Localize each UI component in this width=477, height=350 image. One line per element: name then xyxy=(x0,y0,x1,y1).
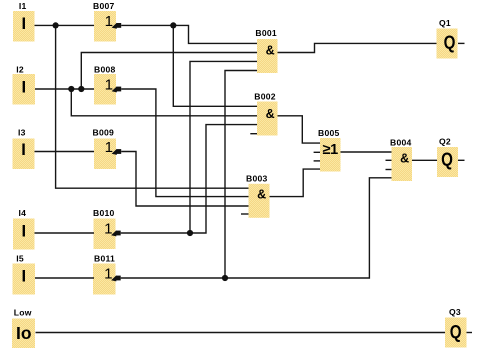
svg-text:&: & xyxy=(266,107,275,121)
wire Q3 output stub xyxy=(467,332,473,334)
svg-text:&: & xyxy=(257,188,266,202)
svg-text:I5: I5 xyxy=(16,253,24,263)
svg-text:B001: B001 xyxy=(255,28,277,38)
svg-text:Q3: Q3 xyxy=(449,307,461,317)
wire I4 to B010 input xyxy=(35,232,95,234)
svg-text:B007: B007 xyxy=(93,1,115,11)
svg-text:Io: Io xyxy=(16,323,32,343)
svg-text:1: 1 xyxy=(105,13,113,30)
input I1 xyxy=(13,1,35,42)
svg-text:I: I xyxy=(22,223,27,241)
wire B007 branch to B002 input 1 xyxy=(173,25,257,106)
svg-text:I: I xyxy=(22,79,27,97)
node B010 output junction xyxy=(187,230,193,236)
svg-text:1: 1 xyxy=(104,220,112,237)
wire B007 output to B001 input 1 xyxy=(121,25,257,43)
node I2 junction b xyxy=(78,86,84,92)
output Q2 xyxy=(437,136,458,177)
wire B010 output to B001 input 3 xyxy=(121,61,257,233)
svg-text:1: 1 xyxy=(105,139,113,156)
wire B001 output to Q1 input xyxy=(278,43,437,52)
AND gate B003 xyxy=(246,173,270,217)
wire B011 output to B004 input 4 xyxy=(121,178,392,278)
wire B011 branch to B001 input 4 xyxy=(225,71,257,279)
NOT gate B008 xyxy=(94,64,121,104)
svg-text:Q: Q xyxy=(450,321,462,342)
wire B002 output to B005 input 1 xyxy=(278,116,321,143)
svg-text:Q: Q xyxy=(444,32,456,53)
input I4 xyxy=(13,208,35,250)
wire B005 input 2 stub xyxy=(314,151,320,153)
svg-text:B002: B002 xyxy=(254,91,276,101)
wire I1 branch to B003 input 1 xyxy=(56,25,249,188)
wire I2 branch to B002 input 2 xyxy=(71,89,257,116)
input I2 xyxy=(13,64,36,104)
wire B010 branch to B002 input 3 xyxy=(190,125,257,233)
svg-text:B005: B005 xyxy=(318,128,340,138)
wire B005 input 3 stub xyxy=(314,160,320,162)
wire I3 to B009 input xyxy=(35,151,95,153)
svg-text:B004: B004 xyxy=(390,137,412,147)
node B011 output junction xyxy=(222,275,228,281)
svg-text:I4: I4 xyxy=(19,208,27,218)
wire I2 branch to B001 input 2 xyxy=(81,53,257,90)
node I1 junction xyxy=(53,22,59,28)
svg-text:&: & xyxy=(266,44,275,58)
svg-text:&: & xyxy=(400,151,409,165)
input Io (Low level) xyxy=(12,308,35,348)
NOT gate B009 xyxy=(93,127,122,169)
OR gate B005 xyxy=(318,128,341,172)
AND gate B004 xyxy=(390,137,412,181)
wire B008 output to B003 input 2 xyxy=(121,89,248,197)
svg-text:B003: B003 xyxy=(246,173,268,183)
svg-text:Q: Q xyxy=(441,149,453,170)
wire B004 input 2 stub xyxy=(386,159,392,161)
AND gate B001 xyxy=(255,28,277,73)
wire Io to Q3 input xyxy=(36,332,446,334)
input I5 xyxy=(13,253,36,294)
svg-text:I: I xyxy=(22,268,27,286)
input I3 xyxy=(13,127,35,169)
wire B005 output to B004 input 1 xyxy=(341,151,392,153)
svg-text:1: 1 xyxy=(105,76,113,93)
svg-text:I3: I3 xyxy=(18,127,26,137)
svg-text:B010: B010 xyxy=(93,208,115,218)
wire B004 output to Q2 input xyxy=(412,159,437,161)
node I2 junction a xyxy=(68,86,74,92)
svg-text:B011: B011 xyxy=(94,253,115,263)
NOT gate B010 xyxy=(93,208,121,249)
svg-text:B009: B009 xyxy=(93,127,115,137)
wire B003 input 4 stub xyxy=(241,213,249,215)
svg-text:B008: B008 xyxy=(94,64,116,74)
wire B004 input 3 stub xyxy=(386,169,392,171)
output Q1 xyxy=(437,18,458,59)
wire B002 input 4 stub xyxy=(250,133,257,135)
svg-text:I: I xyxy=(21,141,26,159)
wire B003 output to B005 input 4 xyxy=(270,169,321,197)
NOT gate B007 xyxy=(93,1,121,42)
AND gate B002 xyxy=(254,91,277,135)
wire I2 to B008 input xyxy=(35,88,94,90)
wire I5 to B011 input xyxy=(35,277,94,279)
svg-text:Q1: Q1 xyxy=(439,18,451,28)
svg-text:Q2: Q2 xyxy=(439,136,451,146)
svg-text:I1: I1 xyxy=(19,1,27,11)
node B007 output junction xyxy=(170,22,176,28)
svg-text:1: 1 xyxy=(104,265,112,282)
svg-text:I2: I2 xyxy=(16,64,24,74)
output Q3 xyxy=(445,307,467,348)
NOT gate B011 xyxy=(93,253,121,294)
wire Q1 output stub xyxy=(458,42,465,44)
svg-text:Low: Low xyxy=(14,308,32,318)
wire I1 to B007 input xyxy=(35,24,95,26)
svg-text:≥1: ≥1 xyxy=(323,142,339,158)
wire B009 output to B003 input 3 xyxy=(121,152,248,207)
wire Q2 output stub xyxy=(458,159,465,161)
svg-text:I: I xyxy=(22,15,27,33)
